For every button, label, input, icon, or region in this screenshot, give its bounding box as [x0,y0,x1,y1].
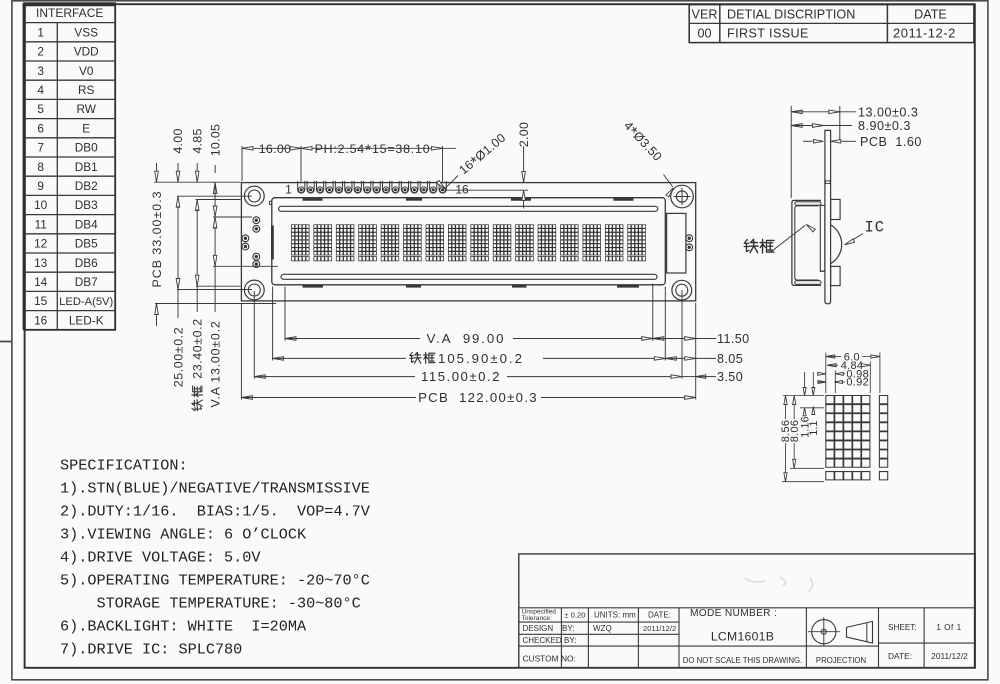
detail dimension 6.0 [825,353,827,394]
svg-text:DATE:: DATE: [888,651,912,661]
side view PCB board strip [825,130,831,303]
dimension frame 23.40+-0.2 vertical [195,200,199,211]
dimension 2.00 pin to pcb edge [445,189,529,191]
dot matrix pitch detail grid [826,396,888,480]
backlight tab rectangle right side [667,213,686,273]
svg-text:4.00: 4.00 [171,128,185,153]
svg-text:13: 13 [34,256,48,270]
side view backlight tab top [831,199,841,219]
svg-text:RS: RS [78,83,95,97]
detail dimension 0.98 [834,371,836,394]
svg-text:V.A 99.00: V.A 99.00 [427,331,506,346]
svg-text:2).DUTY:1/16. BIAS:1/5. VOP=: 2).DUTY:1/16. BIAS:1/5. VOP=4.7V [60,502,371,520]
extension lines left side [154,181,241,183]
svg-text:6: 6 [37,121,44,135]
svg-text:8.05: 8.05 [717,352,743,366]
svg-text:PCB 1.60: PCB 1.60 [860,135,922,149]
detail row extension lines [783,395,824,397]
top elongated slot in bezel [279,206,658,211]
side view frame inner wall [795,206,819,280]
side view backlight tab bottom [831,266,841,285]
svg-text:DETIAL DISCRIPTION: DETIAL DISCRIPTION [727,7,855,21]
svg-text:RW: RW [76,102,96,116]
svg-text:± 0.20: ± 0.20 [564,611,585,620]
detail dimension 8.56 vertical [784,396,787,405]
svg-text:1).STN(BLUE)/NEGATIVE/TRANSMIS: 1).STN(BLUE)/NEGATIVE/TRANSMISSIVE [60,479,370,497]
dimension 4.85 [196,163,198,172]
mounting hole top-right with cross mark [671,185,694,208]
frame top tab marks [303,198,323,201]
svg-text:4: 4 [37,83,44,97]
svg-text:SHEET:: SHEET: [888,623,917,632]
detail dimension 1.1 vertical [812,372,814,387]
svg-text:10: 10 [34,198,48,212]
svg-text:BY:: BY: [562,624,574,633]
title block table lines [519,607,975,609]
dimension 16.00 pin offset [241,146,243,181]
mounting hole top-left [244,186,264,206]
label tie-kuang metal frame with leader [744,239,758,252]
svg-text:14: 14 [34,275,48,289]
svg-text:SPECIFICATION:: SPECIFICATION: [60,456,188,474]
svg-text:11: 11 [35,217,47,231]
svg-text:UNITS: mm: UNITS: mm [594,611,636,620]
frame left bent-tab thick segment [271,226,274,260]
svg-text:BY:: BY: [564,636,576,645]
detail dimension 1.16 vertical [804,372,806,387]
svg-text:DO NOT SCALE THIS DRAWING.: DO NOT SCALE THIS DRAWING. [683,656,802,665]
dimension 3.50 [682,376,696,378]
dimension V.A 13.00+-0.2 vertical [213,217,217,228]
svg-text:15: 15 [34,294,48,308]
svg-text:CUSTOM NO:: CUSTOM NO: [523,654,576,664]
dimension 4.00 [177,163,179,172]
svg-text:5: 5 [37,102,44,116]
extension lines bottom [240,303,242,400]
svg-text:00: 00 [697,26,711,40]
svg-text:16: 16 [455,183,469,197]
metal bezel frame (front view) [272,198,666,285]
dimension PCB 122.00+-0.3 horizontal [241,396,252,400]
svg-text:12: 12 [34,237,47,251]
svg-text:DB6: DB6 [75,256,98,270]
svg-text:DB4: DB4 [75,217,98,231]
svg-text:16: 16 [34,313,48,327]
svg-text:7).DRIVE IC: SPLC780: 7).DRIVE IC: SPLC780 [60,641,242,659]
watermark smudge [745,577,813,592]
dimension V.A 99.00 horizontal [285,337,296,341]
svg-text:2011-12-2: 2011-12-2 [893,25,956,40]
svg-text:8: 8 [37,160,44,174]
svg-text:11.50: 11.50 [717,332,750,346]
svg-text:DB0: DB0 [75,141,98,155]
svg-text:0.92: 0.92 [846,377,869,389]
svg-text:3).VIEWING ANGLE: 6 O’CLOCK: 3).VIEWING ANGLE: 6 O’CLOCK [60,525,307,543]
svg-text:6).BACKLIGHT: WHITE I=20MA: 6).BACKLIGHT: WHITE I=20MA [60,618,307,636]
side view pin hole notch [826,181,830,184]
svg-text:DB7: DB7 [75,275,98,289]
svg-text:MODE NUMBER :: MODE NUMBER : [690,608,777,619]
leader 4*dia3.50 mounting hole callout [664,175,673,188]
dimension 11.50 [653,337,664,341]
revision history table [689,5,974,43]
svg-text:VSS: VSS [74,25,98,39]
svg-text:FIRST ISSUE: FIRST ISSUE [727,26,809,40]
side view LCD glass [820,205,825,271]
svg-text:1 Of 1: 1 Of 1 [936,623,961,632]
svg-text:2011/12/2: 2011/12/2 [931,651,968,661]
svg-text:DB1: DB1 [75,160,98,174]
svg-text:2.00: 2.00 [517,122,531,147]
svg-text:E: E [82,121,90,135]
dimension 8.05 [665,357,676,361]
side view metal frame [792,200,821,285]
frame bottom tab marks [303,285,324,288]
svg-text:PROJECTION: PROJECTION [816,656,866,665]
detail dimension 8.06 vertical [793,396,796,405]
svg-text:PCB 122.00±0.3: PCB 122.00±0.3 [418,390,538,405]
svg-text:7: 7 [37,141,44,155]
interface pin table [24,3,115,330]
svg-text:DB5: DB5 [75,237,98,251]
dimension frame 105.90+-0.2 horizontal [273,357,284,361]
svg-text:1: 1 [285,183,292,197]
side view dimension 13.00+-0.3 [790,106,792,198]
svg-text:10.05: 10.05 [208,124,222,157]
side view frame top lip slot [795,202,821,206]
svg-text:DB3: DB3 [75,198,98,212]
svg-text:DATE: DATE [914,7,947,21]
svg-text:13.00±0.3: 13.00±0.3 [858,105,918,119]
side view dimension PCB 1.60 [803,140,813,142]
dimension PCB 33.00+-0.3 vertical [156,163,158,172]
side view dimension 8.90+-0.3 [791,124,802,128]
title block outer box [519,554,975,668]
svg-text:LED-K: LED-K [69,313,104,327]
mounting hole bottom-left [244,280,264,300]
dimension 10.05 [214,165,216,173]
svg-text:DATE:: DATE: [648,611,671,620]
side view frame bottom lip slot [795,281,821,285]
bottom elongated slot in bezel [281,274,657,279]
dimension 115.00+-0.2 horizontal [254,375,265,379]
svg-text:INTERFACE: INTERFACE [36,6,103,20]
svg-text:16.00: 16.00 [259,142,292,156]
svg-text:3: 3 [37,64,44,78]
pin header 16 pads [298,181,305,193]
svg-text:105.90±0.2: 105.90±0.2 [438,351,524,366]
dimension 25.00+-0.2 vertical [176,196,180,207]
svg-text:Tolerance:: Tolerance: [522,615,553,622]
svg-text:25.00±0.2: 25.00±0.2 [172,327,186,387]
16 character dot-matrix blocks [291,225,309,261]
detail dimension 4.84 [869,362,871,394]
svg-text:STORAGE TEMPERATURE: -30~80°C: STORAGE TEMPERATURE: -30~80°C [60,595,361,613]
svg-text:4).DRIVE VOLTAGE: 5.0V: 4).DRIVE VOLTAGE: 5.0V [60,549,261,567]
svg-text:5).OPERATING TEMPERATURE: -20~: 5).OPERATING TEMPERATURE: -20~70°C [60,572,370,590]
svg-text:2: 2 [37,45,44,59]
svg-text:IC: IC [865,219,886,237]
left solder pads [253,217,260,224]
svg-text:LED-A(5V): LED-A(5V) [59,296,113,308]
svg-text:VER: VER [692,7,718,21]
detail dimension 0.92 [818,381,826,384]
LCD module PCB outline (front view) [241,183,695,301]
svg-text:1: 1 [37,25,44,39]
side view IC blob (COB) [831,225,842,264]
svg-text:CHECKED: CHECKED [523,636,562,645]
svg-text:8.90±0.3: 8.90±0.3 [858,119,911,133]
svg-text:115.00±0.2: 115.00±0.2 [421,369,501,384]
svg-text:3.50: 3.50 [717,370,743,384]
svg-text:WZQ: WZQ [593,624,612,633]
svg-text:9: 9 [37,179,44,193]
projection symbol [812,620,836,644]
svg-text:V0: V0 [79,64,94,78]
svg-text:V.A 13.00±0.2: V.A 13.00±0.2 [209,320,223,407]
svg-text:4.85: 4.85 [190,128,204,153]
svg-text:DB2: DB2 [75,179,98,193]
mounting hole bottom-right [672,280,692,300]
svg-text:23.40±0.2: 23.40±0.2 [191,318,205,378]
leader 16*dia1.00 pin hole callout [445,176,458,189]
svg-text:DESIGN: DESIGN [523,624,554,633]
svg-text:2011/12/2: 2011/12/2 [643,624,676,633]
svg-text:VDD: VDD [74,45,99,59]
frame top-left notch [270,201,272,204]
dimension PH:2.54*15=38.10 pin pitch [442,146,444,183]
svg-text:PCB 33.00±0.3: PCB 33.00±0.3 [150,191,164,288]
right backlight pads [686,235,693,242]
svg-text:1.1: 1.1 [808,420,820,435]
svg-text:LCM1601B: LCM1601B [711,630,774,644]
